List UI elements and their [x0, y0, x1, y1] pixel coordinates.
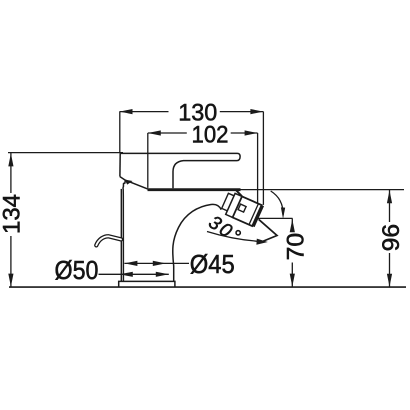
faucet body left inner line	[120, 189, 122, 282]
faucet body right profile / neck underside	[173, 204, 221, 281]
dimension Ø50 arrow line and leader	[99, 272, 169, 277]
faucet lever underside diagonal	[125, 180, 149, 190]
pop-up knob wedge	[125, 180, 133, 185]
extension line right of 102	[257, 133, 259, 204]
spray head connector step from deck	[236, 190, 242, 196]
dimension 134 extension line top	[8, 152, 123, 154]
svg-text:102: 102	[192, 122, 229, 149]
spray head main body (rotated rect)	[233, 196, 262, 226]
svg-text:Ø45: Ø45	[190, 249, 235, 279]
spray head band 2	[222, 193, 234, 211]
spray head face inner line	[249, 204, 258, 225]
mounting deck line	[9, 286, 406, 288]
angle upper arc arrow	[271, 191, 286, 219]
extension line for 96 (top, at spray axis height)	[240, 189, 404, 191]
svg-text:134: 134	[0, 194, 25, 234]
dimension 130 line	[120, 109, 264, 114]
spray head band 1	[226, 193, 242, 217]
spray head face outer thick line	[254, 206, 263, 227]
faucet lever left face	[119, 153, 121, 176]
dimension 102 line	[148, 130, 258, 135]
pop-up rod (outlined)	[96, 236, 121, 245]
extension line left of 130	[119, 112, 121, 154]
faucet body top deck (thick)	[148, 188, 241, 191]
faucet lever underside and pop-up knob notch	[120, 177, 125, 282]
extension tick for 70 (spray outlet level)	[257, 217, 293, 219]
svg-text:96: 96	[378, 224, 405, 252]
svg-text:70: 70	[283, 233, 310, 261]
angle chevron (spray direction)	[259, 219, 277, 242]
extension line left of 102	[147, 133, 149, 188]
dimension 70 line	[290, 218, 295, 287]
base plate	[119, 281, 175, 287]
angle lower arc arrow	[207, 232, 268, 245]
dimension 134 line	[8, 153, 13, 287]
extension line right of 130	[262, 112, 264, 205]
dimension Ø45 arrow line and leader	[124, 261, 189, 266]
dimension 96 line	[387, 190, 392, 288]
spray head small square detail	[238, 204, 246, 212]
faucet lever handle	[120, 153, 240, 188]
svg-text:Ø50: Ø50	[55, 255, 99, 285]
